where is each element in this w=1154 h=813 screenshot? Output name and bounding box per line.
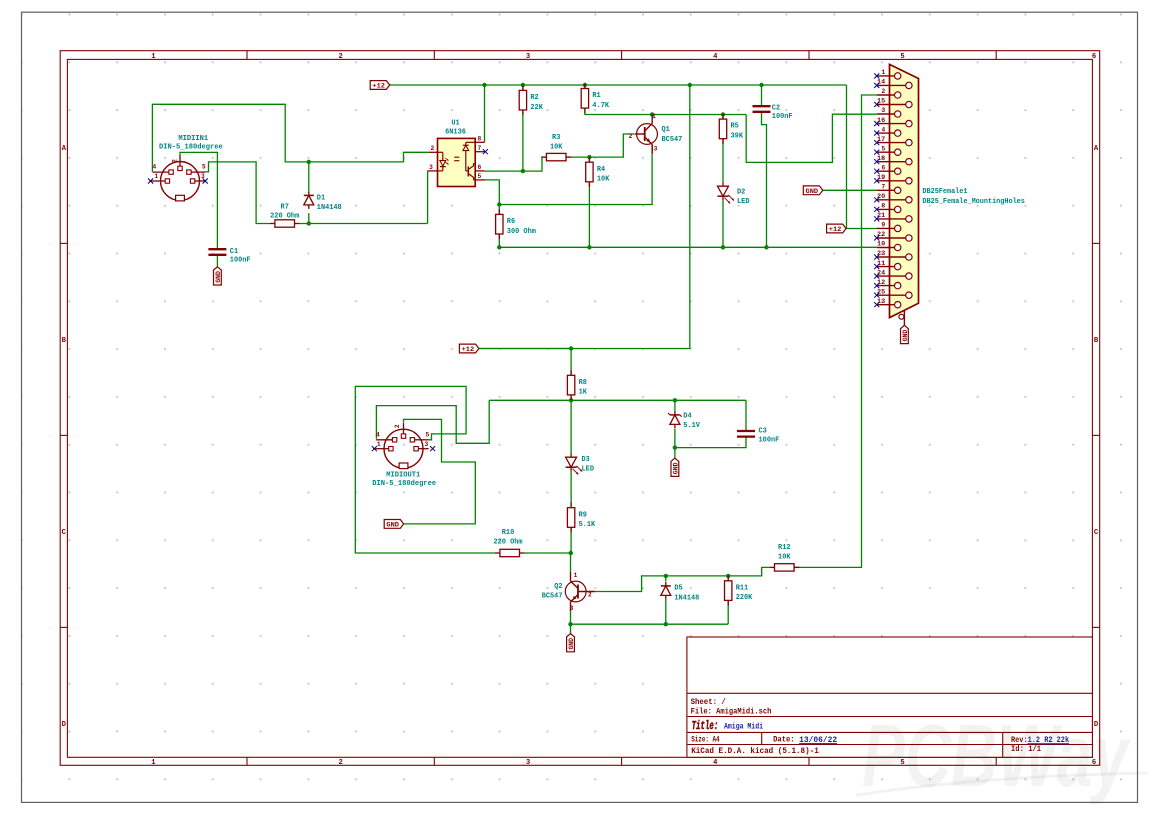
svg-text:+12: +12	[372, 83, 385, 91]
resistor R5 39K	[719, 114, 743, 144]
svg-text:2: 2	[394, 424, 401, 428]
title block frame	[687, 637, 1093, 757]
svg-text:18: 18	[877, 155, 886, 162]
svg-text:R2: R2	[530, 94, 539, 102]
svg-text:GND: GND	[386, 522, 399, 530]
wire: C2 top lead	[761, 85, 763, 106]
title block: kicad version field	[691, 746, 819, 756]
wire: 5V rail to MIDIOUT pin4	[376, 400, 489, 443]
svg-text:C1: C1	[230, 248, 239, 256]
svg-text:+12: +12	[462, 346, 475, 354]
title block: title field	[692, 720, 763, 733]
no-connect X MIDIOUT1 pin1	[372, 446, 377, 451]
svg-text:R6: R6	[507, 218, 516, 226]
svg-text:LED: LED	[737, 198, 750, 206]
junction: R5 top	[721, 112, 725, 116]
svg-text:Q2: Q2	[554, 583, 563, 591]
svg-text:1: 1	[151, 759, 156, 767]
svg-text:2: 2	[339, 759, 343, 767]
svg-text:D4: D4	[683, 413, 692, 421]
junction: R6 top node	[497, 202, 501, 206]
diode D4 5.1V zener	[668, 411, 700, 430]
svg-text:3: 3	[570, 605, 574, 612]
svg-text:BC547: BC547	[542, 593, 563, 601]
wire: MIDIIN1 pin4 to U1 pin2 (net IN+)	[152, 104, 428, 172]
capacitor C1	[208, 248, 251, 265]
connector MIDIIN1 DIN-5_180degree	[150, 135, 224, 201]
svg-text:+12: +12	[829, 226, 842, 234]
wire: MIDIIN1 pin5 to R7 left (net IN-)	[205, 162, 270, 224]
wire: R5 body to line	[722, 115, 724, 120]
resistor R1 4.7K	[581, 83, 609, 113]
junction: Q1 collector	[650, 112, 654, 116]
wire: MIDIOUT pin2 to GND stub	[404, 419, 476, 524]
svg-text:DIN-5_180degree: DIN-5_180degree	[159, 144, 223, 152]
diode D3 LED	[566, 453, 595, 474]
svg-text:7: 7	[477, 145, 481, 152]
junction: D1 top	[307, 160, 311, 164]
svg-text:220 Ohm: 220 Ohm	[493, 539, 522, 547]
svg-text:R4: R4	[597, 166, 606, 174]
svg-text:DB25Female1: DB25Female1	[922, 188, 967, 196]
transistor Q1 BC547	[635, 115, 683, 154]
junction: R9/R10/Q2 node	[569, 551, 573, 555]
title block: file field	[691, 706, 772, 716]
power label +12 (mid)	[459, 344, 479, 354]
svg-text:16: 16	[877, 117, 886, 124]
wire: R8 bottom to 5V rail	[570, 395, 572, 400]
svg-text:1: 1	[574, 572, 578, 579]
svg-text:6: 6	[477, 164, 481, 171]
svg-text:4.7K: 4.7K	[592, 102, 609, 110]
svg-text:300 Ohm: 300 Ohm	[507, 228, 536, 236]
wire: R1 top lead	[584, 85, 586, 88]
svg-text:1: 1	[377, 441, 381, 448]
no-connect X MIDIIN1 pin1	[148, 178, 153, 183]
svg-text:R9: R9	[579, 511, 588, 519]
svg-text:C: C	[1094, 529, 1099, 537]
wire: gnd rail to DB25 pin10	[499, 246, 877, 248]
diode D1 1N4148	[304, 191, 342, 212]
svg-text:2: 2	[172, 159, 179, 163]
svg-text:1K: 1K	[579, 389, 588, 397]
svg-text:R5: R5	[731, 123, 740, 131]
svg-text:Q1: Q1	[662, 126, 671, 134]
optocoupler U1 6N136	[428, 120, 485, 187]
svg-text:U1: U1	[451, 120, 460, 128]
resistor R10 220 Ohm	[493, 529, 524, 557]
junction: R8 top	[569, 346, 573, 350]
svg-text:5.1V: 5.1V	[683, 422, 700, 430]
svg-text:22K: 22K	[530, 104, 543, 112]
wire: U1 pin6 - R3 left	[485, 157, 547, 171]
junction: +12 rail at R2	[521, 83, 525, 87]
wire: MIDIOUT pin5 loop to R10	[355, 386, 494, 553]
junction: D5 bottom	[664, 622, 668, 626]
no-connect X MIDIOUT1 pin3	[430, 446, 435, 451]
svg-text:4: 4	[376, 431, 380, 438]
junction: +12 rail at R1	[583, 83, 587, 87]
svg-text:LED: LED	[582, 466, 595, 474]
capacitor C3 100nF	[737, 428, 780, 445]
svg-text:5.1K: 5.1K	[579, 521, 596, 529]
wire: R6 bottom lead	[498, 234, 500, 247]
svg-text:220K: 220K	[736, 594, 753, 602]
svg-text:3: 3	[526, 759, 530, 767]
svg-text:A: A	[62, 145, 67, 153]
wire: 5V rail	[489, 399, 746, 401]
wire: C2 bottom jog to gnd rail	[762, 112, 767, 248]
svg-text:KiCad E.D.A. kicad (5.1.8)-1: KiCad E.D.A. kicad (5.1.8)-1	[691, 746, 819, 756]
svg-text:GND: GND	[215, 271, 222, 283]
svg-text:5: 5	[202, 164, 206, 171]
wire: R2 top lead	[522, 85, 524, 90]
svg-text:10K: 10K	[778, 553, 791, 561]
wire: R5 bottom to D2	[722, 139, 724, 183]
wire: collector line U-detour to DB25 pin3	[746, 114, 877, 162]
svg-text:3: 3	[654, 146, 658, 153]
ground GND label (DB25 pin7)	[803, 186, 823, 196]
svg-text:2: 2	[430, 145, 434, 152]
svg-text:10K: 10K	[597, 176, 610, 184]
svg-text:C2: C2	[772, 105, 781, 113]
wire: R3 right - R4 top - Q1 base	[566, 134, 635, 162]
svg-text:39K: 39K	[731, 133, 744, 141]
junction: +12 rail at U1 pin8	[482, 83, 486, 87]
wire: DB25 pin2 down to R12 right	[794, 95, 877, 567]
pin labels Q2	[570, 572, 592, 612]
svg-text:7: 7	[881, 184, 885, 191]
svg-text:1: 1	[652, 113, 656, 120]
junction: D4 gnd node	[673, 445, 677, 449]
svg-text:Size: A4: Size: A4	[691, 735, 719, 745]
wire: D3 bottom to R9	[570, 471, 572, 508]
svg-text:13: 13	[877, 298, 886, 305]
watermark PCBWay	[856, 706, 1148, 805]
resistor R8 1K	[567, 370, 587, 400]
wire: D5 top lead	[665, 576, 667, 582]
svg-text:2: 2	[339, 53, 343, 61]
no-connect X MIDIIN1 pin3	[203, 178, 208, 183]
svg-text:D3: D3	[582, 456, 591, 464]
svg-text:GND: GND	[806, 188, 819, 196]
pin labels MIDIIN1	[152, 159, 206, 180]
junction: R11 top	[726, 574, 730, 578]
svg-text:Sheet: /: Sheet: /	[691, 697, 726, 707]
wire: R11 leads	[727, 576, 729, 624]
svg-text:9: 9	[881, 222, 885, 229]
svg-text:D: D	[62, 721, 67, 729]
pin labels MIDIOUT1	[376, 424, 430, 448]
junction: Q2 emitter	[568, 622, 572, 626]
svg-text:2: 2	[588, 592, 592, 599]
svg-text:25: 25	[877, 288, 886, 295]
wire: +12 mid node to R8	[479, 349, 571, 376]
resistor R6 300 Ohm	[496, 209, 537, 239]
ground GND at C1	[214, 267, 222, 285]
wire: MIDIIN1 pin2 to C1 top	[180, 152, 217, 249]
resistor R12 10K	[769, 544, 799, 571]
wire: +12 rail drop to mid +12 node	[479, 85, 690, 349]
svg-text:15: 15	[877, 98, 886, 105]
svg-text:R10: R10	[502, 529, 515, 537]
diode D5 1N4148	[661, 582, 700, 602]
svg-text:B: B	[62, 337, 67, 345]
connector MIDIOUT1 DIN-5_180degree	[372, 423, 436, 489]
svg-text:5: 5	[477, 173, 481, 180]
title block: id field	[1011, 744, 1041, 754]
title block: sheet field	[691, 697, 726, 707]
svg-text:2: 2	[629, 133, 633, 140]
wire: R1 bottom collector line	[585, 109, 746, 115]
junction: +12 rail at drop	[688, 83, 692, 87]
svg-text:2: 2	[881, 88, 885, 95]
svg-text:100nF: 100nF	[759, 436, 780, 444]
junction: +12 rail at C2	[759, 83, 763, 87]
svg-text:D2: D2	[737, 189, 746, 197]
svg-text:DIN-5_180degree: DIN-5_180degree	[372, 480, 436, 488]
ground GND at DB25 mounting hole	[901, 325, 909, 343]
svg-text:5: 5	[881, 145, 885, 152]
svg-text:1N4148: 1N4148	[317, 204, 342, 212]
svg-text:220 Ohm: 220 Ohm	[270, 213, 299, 221]
wire: C1 bottom to GND	[216, 255, 218, 267]
svg-text:6: 6	[1092, 53, 1096, 61]
junction: R3/R4 node	[587, 155, 591, 159]
svg-text:R7: R7	[281, 203, 290, 211]
resistor R4 10K	[586, 157, 610, 187]
wire: D5 bottom lead	[665, 599, 667, 624]
junction: rail at R4	[587, 245, 591, 249]
svg-text:1N4148: 1N4148	[674, 594, 699, 602]
svg-text:10K: 10K	[550, 143, 563, 151]
junction: D5 top	[664, 574, 668, 578]
title block: size field	[691, 735, 719, 745]
wire: +12 rail to DB25 pin9	[847, 85, 877, 229]
svg-text:R1: R1	[592, 92, 601, 100]
wire: Q2 emitter gnd rail	[571, 611, 729, 634]
svg-text:File: AmigaMidi.sch: File: AmigaMidi.sch	[691, 706, 772, 716]
wire: U1 pin8 to +12 rail	[484, 85, 486, 142]
pin labels Q1	[629, 113, 658, 153]
title block: date field	[773, 735, 837, 745]
svg-text:24: 24	[877, 269, 886, 276]
wire: D3 top lead	[570, 400, 572, 453]
wire: D1 top tie	[308, 162, 310, 224]
transistor Q2 BC547	[542, 572, 595, 611]
svg-text:C: C	[62, 529, 67, 537]
capacitor C2 100nF	[753, 105, 793, 122]
svg-text:GND: GND	[902, 329, 909, 341]
svg-text:B: B	[1094, 337, 1099, 345]
svg-text:MIDIIN1: MIDIIN1	[178, 135, 208, 143]
no-connect X U1 pin7	[483, 149, 488, 154]
wire: R9 bottom to R10 line	[570, 527, 572, 553]
wire: D2 bottom to gnd rail	[722, 200, 724, 247]
svg-text:1: 1	[881, 69, 885, 76]
wire: U1 pin5 - R6 top - Q1 emitter	[485, 145, 653, 215]
svg-text:3: 3	[881, 107, 885, 114]
svg-text:8: 8	[881, 203, 885, 210]
svg-text:5: 5	[426, 431, 430, 438]
svg-text:3: 3	[429, 164, 433, 171]
resistor R3 10K	[541, 134, 571, 161]
wire: R10 line to Q2 collector	[525, 553, 571, 572]
junction: D1 bottom	[307, 221, 311, 225]
power label +12 (DB25 pin9)	[827, 224, 847, 234]
svg-text:5: 5	[900, 53, 904, 61]
svg-text:DB25_Female_MountingHoles: DB25_Female_MountingHoles	[922, 198, 1025, 206]
wire: GND label to DB25 pin7	[823, 189, 877, 191]
svg-text:4: 4	[881, 126, 885, 133]
ground GND at D4	[671, 458, 679, 476]
svg-text:R11: R11	[736, 584, 749, 592]
title block: rev field	[1011, 735, 1069, 745]
svg-text:21: 21	[877, 212, 886, 219]
junction: rail at D2	[721, 245, 725, 249]
svg-text:R3: R3	[552, 134, 561, 142]
wire: Q2 base to D5/R11 line	[595, 567, 769, 591]
wire: +12 top rail	[390, 84, 847, 86]
svg-text:19: 19	[877, 174, 886, 181]
resistor R2 22K	[519, 85, 543, 115]
wire: D4 top lead	[674, 400, 676, 411]
wire: D4 bottom - C3 bottom - GND	[675, 429, 746, 458]
svg-text:100nF: 100nF	[772, 113, 793, 121]
connector DB25Female1 DB25_Female_MountingHoles	[874, 64, 1025, 325]
ground GND label (MIDIOUT1 pin2)	[384, 520, 404, 530]
svg-text:MIDIOUT1: MIDIOUT1	[386, 472, 420, 480]
svg-text:10: 10	[877, 241, 886, 248]
svg-text:1: 1	[151, 53, 156, 61]
diode D2 LED	[718, 182, 750, 206]
wire: C3 top lead	[745, 400, 747, 431]
resistor R7 220 Ohm	[270, 203, 300, 227]
svg-text:GND: GND	[672, 462, 679, 474]
svg-text:3: 3	[425, 441, 429, 448]
svg-text:100nF: 100nF	[230, 257, 251, 265]
svg-text:4: 4	[713, 53, 718, 61]
resistor R9 5.1K	[567, 503, 595, 533]
ground GND at Q2	[567, 634, 575, 652]
svg-text:8: 8	[477, 135, 481, 142]
svg-text:Title:: Title:	[692, 720, 719, 733]
svg-text:11: 11	[877, 260, 886, 267]
junction: rail at C2	[764, 245, 768, 249]
junction: 5V rail at D4	[673, 398, 677, 402]
pin labels U1	[429, 135, 481, 180]
svg-text:C3: C3	[759, 428, 768, 436]
svg-text:22: 22	[877, 231, 886, 238]
svg-text:D5: D5	[674, 585, 683, 593]
junction: R2 on pin6 net	[521, 169, 525, 173]
resistor R11 220K	[725, 576, 753, 606]
svg-text:A: A	[1094, 145, 1099, 153]
svg-text:D1: D1	[317, 195, 326, 203]
svg-text:Amiga Midi: Amiga Midi	[724, 722, 763, 732]
junction: 5V rail at R8	[569, 398, 573, 402]
svg-text:GND: GND	[568, 638, 575, 650]
svg-text:4: 4	[713, 759, 718, 767]
svg-text:BC547: BC547	[662, 136, 683, 144]
svg-text:4: 4	[152, 164, 156, 171]
wire: R2 bottom to pin6 net	[522, 110, 524, 171]
svg-text:6N136: 6N136	[445, 129, 466, 137]
wire: R4 bottom lead	[588, 182, 590, 248]
power label +12 (top)	[370, 81, 390, 91]
svg-text:6: 6	[881, 164, 885, 171]
wire: R7 right - D1 bottom - U1 pin3	[300, 171, 428, 224]
svg-text:1: 1	[154, 173, 158, 180]
svg-text:R12: R12	[778, 544, 791, 552]
svg-text:3: 3	[526, 53, 530, 61]
junction: rail at R6	[497, 245, 501, 249]
svg-text:R8: R8	[579, 379, 588, 387]
svg-text:Date:: Date:	[773, 736, 795, 745]
